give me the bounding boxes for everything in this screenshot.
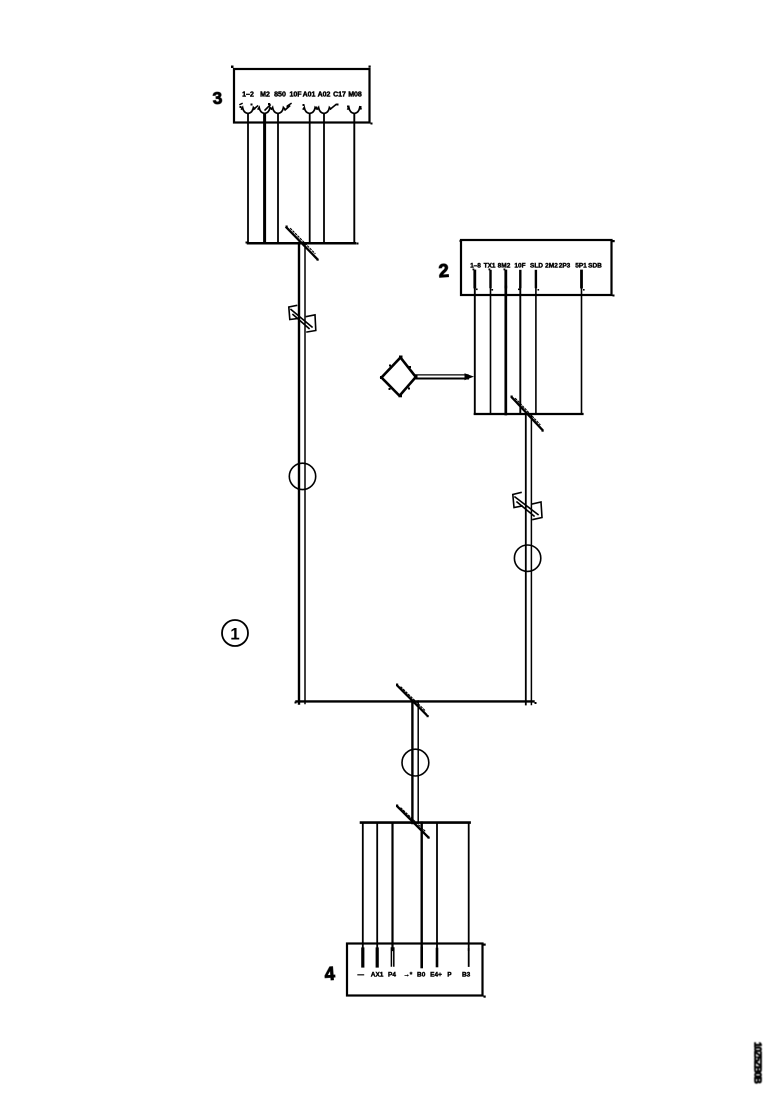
wires from connector 2: [475, 287, 582, 414]
svg-text:→*: →*: [403, 972, 413, 979]
svg-text:10F: 10F: [289, 92, 302, 99]
label 2: [438, 260, 450, 282]
svg-text:850: 850: [274, 92, 286, 99]
bus line of connector 4: [361, 821, 470, 824]
wires to connector 4: [363, 823, 469, 950]
grommet circle right: [514, 545, 540, 571]
bundle collector line of connector 3: [248, 242, 355, 245]
svg-text:TX1: TX1: [484, 263, 496, 270]
stub specks box 2: [473, 269, 585, 291]
harness id circle 1: [222, 620, 248, 646]
connector 2 box: [461, 240, 612, 295]
branch slash mark A: [286, 226, 319, 261]
twist marker left: [289, 306, 316, 333]
branch slash mark D: [396, 805, 430, 839]
svg-text:AX1: AX1: [371, 972, 384, 979]
center trunk wire pair: [412, 701, 418, 823]
pin labels box 4: [357, 972, 470, 979]
svg-text:8M2: 8M2: [498, 263, 511, 270]
svg-text:2M2: 2M2: [545, 263, 558, 270]
connector 3 box: [234, 69, 370, 123]
document number vertical: [752, 1042, 763, 1084]
svg-text:3: 3: [212, 88, 223, 109]
pin labels box 2: [470, 263, 602, 270]
label 4: [324, 963, 336, 985]
label 3: [212, 88, 223, 109]
branch slash mark B: [511, 396, 544, 432]
node diamond: [380, 356, 418, 398]
svg-text:4: 4: [324, 963, 336, 985]
connector 4 box: [347, 944, 483, 996]
twist marker right: [513, 493, 542, 520]
pin stubs box 4: [363, 948, 469, 967]
svg-text:M08: M08: [348, 92, 362, 99]
svg-text:1: 1: [230, 625, 239, 644]
wire pair from diamond to connector 2: [416, 375, 469, 379]
svg-text:A01: A01: [303, 92, 316, 99]
grommet circle center: [402, 749, 429, 776]
svg-text:1–2: 1–2: [242, 92, 254, 99]
right trunk wire pair: [526, 414, 532, 705]
svg-text:B3: B3: [462, 972, 471, 979]
socket noise specks box 3: [240, 103, 362, 108]
svg-text:10Z5ZB0B: 10Z5ZB0B: [752, 1042, 763, 1084]
pin stubs box 2: [475, 271, 582, 287]
svg-text:2P3: 2P3: [559, 263, 571, 270]
svg-text:P4: P4: [388, 972, 396, 979]
svg-text:C17: C17: [333, 92, 346, 99]
pin sockets box 3: [240, 104, 361, 114]
grommet circle left: [289, 463, 315, 489]
svg-text:SDB: SDB: [588, 263, 602, 270]
bundle collector line of connector 2: [475, 413, 583, 415]
pin labels box 3: [242, 92, 362, 99]
left trunk wire pair: [299, 243, 305, 704]
svg-text:M2: M2: [260, 92, 270, 99]
svg-text:—: —: [357, 972, 364, 979]
svg-text:10F: 10F: [514, 263, 525, 270]
svg-text:E4+: E4+: [430, 972, 442, 979]
svg-text:2: 2: [438, 260, 450, 282]
svg-text:B0: B0: [417, 972, 426, 979]
branch slash mark C: [396, 684, 429, 718]
svg-text:A02: A02: [318, 92, 331, 99]
arrowhead at connector 2 wire: [465, 373, 475, 380]
wires from connector 3: [248, 114, 354, 243]
svg-text:P: P: [447, 972, 452, 979]
main collector line: [297, 700, 534, 702]
svg-text:5P1: 5P1: [575, 263, 587, 270]
scan specks: [231, 66, 615, 998]
svg-text:SLD: SLD: [530, 263, 543, 270]
svg-text:1–8: 1–8: [470, 263, 481, 270]
